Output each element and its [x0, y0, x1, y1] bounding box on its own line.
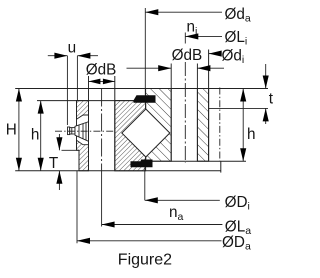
Oda dim — [145, 11, 222, 13]
Oda extension + split above top seal — [144, 8, 146, 95]
svg-text:ØdB: ØdB — [172, 47, 203, 64]
OdB right dim — [127, 67, 172, 69]
piece B: right half of center block (hatched) — [146, 89, 172, 162]
left ring outer surface extension down to ODa — [76, 171, 78, 244]
u dim — [48, 55, 68, 57]
svg-text:h: h — [247, 126, 256, 143]
ODi dim — [145, 199, 220, 201]
t arrows (outside) — [263, 76, 269, 89]
h right shaft — [242, 89, 244, 162]
outer-ring left wall (hatched, with bottom step) — [77, 101, 89, 171]
h left shaft — [40, 101, 42, 171]
t arrows shafts — [265, 64, 267, 89]
T arrows (outside) — [56, 137, 62, 150]
h left arrows — [38, 101, 44, 114]
OdB left arrows (inside, pointing out) — [89, 79, 101, 85]
phantom housing bore, dash-dot — [219, 88, 221, 162]
left bolt hole edge (pocket back wall) — [88, 76, 90, 171]
Odi left arrow — [209, 51, 222, 57]
svg-text:ØdB: ØdB — [86, 61, 117, 78]
phantom plate end bar — [220, 161, 222, 172]
ODa arrow — [77, 238, 90, 244]
Odi dim — [209, 53, 220, 55]
right bolt hole left edge + ext — [170, 64, 172, 162]
svg-text:ØLi: ØLi — [225, 29, 248, 48]
svg-text:ØDi: ØDi — [225, 194, 250, 213]
piece A left edge + OdB ext — [114, 76, 116, 171]
H arrows — [16, 89, 22, 102]
inner ring right column (hatched) — [197, 89, 208, 162]
right bolt hole centerline dash-dot + OLi ext — [184, 33, 186, 44]
bottom line L2 (inner ring bottom, extends right for h) — [153, 160, 247, 162]
OLi left arrow — [185, 33, 198, 39]
svg-text:H: H — [6, 122, 17, 139]
left ring top face + h extension H2 — [37, 100, 134, 102]
h right arrows — [240, 89, 246, 102]
top seal (black) — [134, 95, 156, 103]
T step line — [62, 149, 80, 151]
right bolt hole right edge + ext — [196, 64, 198, 162]
svg-text:u: u — [68, 39, 77, 56]
left bolt hole centerline, dash-dot, extends to OLa — [101, 89, 103, 171]
roller (white diamond) — [122, 109, 170, 157]
u arrows (outside) — [54, 53, 67, 59]
bottom seal (black) — [131, 160, 153, 168]
inner ring bore surface + Odi ext — [208, 50, 210, 162]
svg-text:Figure2: Figure2 — [118, 252, 172, 269]
Oda left arrow — [145, 9, 158, 15]
piece A: left half of center block (hatched) — [115, 101, 146, 171]
svg-text:T: T — [49, 155, 58, 172]
svg-text:Ødi: Ødi — [222, 48, 245, 67]
svg-text:t: t — [269, 90, 274, 107]
bottom line L1 — [15, 170, 221, 172]
grease nipple — [68, 122, 89, 142]
OLi dim — [185, 35, 222, 37]
OLa dim — [102, 224, 223, 226]
OdB left dim — [89, 80, 115, 82]
grease nipple pocket (white recess in left wall) — [77, 115, 89, 145]
phantom housing top line / t lower extension — [209, 107, 268, 109]
long top line H1 (top face + extensions) — [15, 88, 268, 90]
H arrow shaft — [18, 89, 20, 171]
OdB right dim arrows (outside) — [158, 65, 171, 71]
ODa dim — [77, 240, 222, 242]
svg-text:h: h — [31, 126, 40, 143]
split below diamond to bottom seal, ODi extension — [145, 103, 147, 109]
OLa arrow — [102, 221, 115, 227]
nipple centerline dash-dot — [55, 130, 115, 132]
T arrows shafts — [58, 134, 60, 150]
ODi arrow — [145, 197, 158, 203]
